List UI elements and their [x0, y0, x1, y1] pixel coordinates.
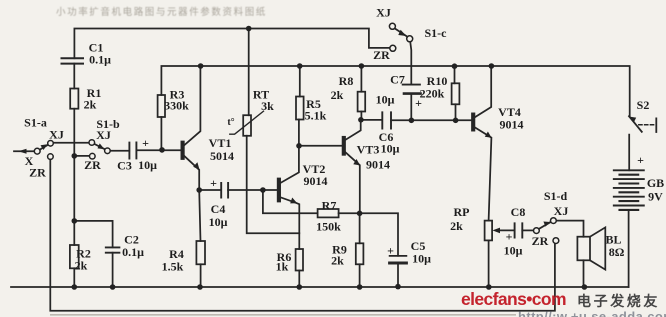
svg-text:电子发烧友: 电子发烧友 [577, 293, 660, 310]
svg-text:ZR: ZR [373, 48, 390, 62]
svg-text:+: + [506, 230, 513, 244]
svg-text:0.1μ: 0.1μ [122, 245, 144, 259]
svg-text:R8: R8 [339, 74, 354, 88]
svg-text:小功率扩音机电路图与元器件参数资料图纸: 小功率扩音机电路图与元器件参数资料图纸 [56, 6, 267, 18]
svg-text:8Ω: 8Ω [609, 245, 625, 259]
svg-text:2k: 2k [331, 88, 344, 102]
svg-text:330k: 330k [164, 99, 189, 113]
svg-text:9014: 9014 [366, 158, 390, 172]
svg-text:+: + [637, 153, 644, 167]
svg-text:5014: 5014 [210, 149, 234, 163]
svg-text:XJ: XJ [96, 128, 111, 142]
svg-text:10μ: 10μ [138, 158, 157, 172]
svg-text:10μ: 10μ [381, 142, 400, 156]
svg-text:GB: GB [647, 176, 664, 190]
svg-text:ZR: ZR [532, 234, 549, 248]
svg-text:VT1: VT1 [209, 136, 232, 150]
svg-text:10μ: 10μ [504, 244, 523, 258]
svg-text:1.5k: 1.5k [162, 260, 184, 274]
svg-text:t°: t° [227, 117, 234, 128]
svg-text:XJ: XJ [49, 128, 64, 142]
svg-text:C8: C8 [511, 205, 526, 219]
svg-text:2k: 2k [450, 219, 463, 233]
svg-text:+: + [387, 244, 394, 258]
svg-text:10μ: 10μ [412, 252, 431, 266]
svg-text:http//:w.+u.se-adda.com: http//:w.+u.se-adda.com [518, 309, 666, 317]
svg-text:C4: C4 [211, 202, 226, 216]
svg-text:C7: C7 [390, 73, 405, 87]
svg-text:9014: 9014 [304, 174, 328, 188]
svg-text:3k: 3k [261, 99, 274, 113]
svg-text:1k: 1k [276, 260, 289, 274]
svg-text:10μ: 10μ [376, 93, 395, 107]
svg-text:0.1μ: 0.1μ [89, 53, 111, 67]
svg-text:VT3: VT3 [357, 143, 380, 157]
svg-text:S1-d: S1-d [544, 189, 568, 203]
svg-text:9V: 9V [648, 190, 663, 204]
svg-text:5.1k: 5.1k [305, 109, 327, 123]
svg-text:RP: RP [454, 205, 470, 219]
svg-text:S2: S2 [637, 98, 650, 112]
svg-text:2k: 2k [331, 254, 344, 268]
svg-text:XJ: XJ [376, 6, 391, 20]
svg-text:elecfans•com: elecfans•com [461, 289, 566, 309]
svg-text:R7: R7 [322, 199, 337, 213]
svg-text:XJ: XJ [554, 204, 569, 218]
svg-text:S1-a: S1-a [24, 116, 47, 130]
svg-text:C3: C3 [117, 159, 132, 173]
svg-text:+: + [415, 96, 422, 110]
svg-text:+: + [142, 136, 149, 150]
svg-text:+: + [210, 176, 217, 190]
svg-text:10μ: 10μ [209, 215, 228, 229]
svg-text:150k: 150k [316, 220, 341, 234]
svg-text:S1-c: S1-c [425, 26, 448, 40]
svg-text:220k: 220k [420, 87, 445, 101]
svg-text:9014: 9014 [500, 118, 524, 132]
svg-text:2k: 2k [84, 98, 97, 112]
svg-text:ZR: ZR [84, 158, 101, 172]
svg-text:ZR: ZR [29, 166, 46, 180]
svg-text:2k: 2k [75, 259, 88, 273]
